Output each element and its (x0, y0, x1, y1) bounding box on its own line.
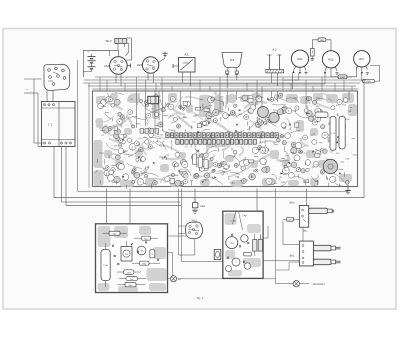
svg-text:SK3: SK3 (290, 201, 295, 204)
svg-text:A 2: A 2 (272, 48, 276, 52)
lamp LA (170, 276, 176, 282)
resistor R62 on sub-board (125, 283, 136, 287)
wire to jack SK3 (306, 189, 308, 206)
wire feeders into board (99, 77, 101, 95)
wire pair to tube socket (178, 189, 195, 256)
transistor TR2 on oscillator board (241, 235, 248, 242)
transistor TR5 on sub-board (137, 246, 146, 255)
transistor TR1 on oscillator board (226, 237, 238, 249)
wire battery top feed (83, 50, 109, 77)
wire mains leads to plug (24, 78, 42, 80)
ground near board bottom right (347, 185, 349, 191)
svg-text:TR5: TR5 (140, 250, 144, 253)
wire to sub-board mid (129, 189, 131, 224)
wire plug leads (46, 91, 48, 102)
earpiece H0 (222, 53, 242, 68)
capacitor C58 (310, 49, 314, 57)
svg-text:C6: C6 (151, 253, 153, 256)
capacitor top-cap stub at V2 (159, 58, 166, 63)
svg-text:LA: LA (178, 278, 181, 281)
wire down to oscillator board (256, 189, 258, 212)
resistor R56 (312, 40, 318, 49)
resistor R60 on sub-board (140, 261, 150, 265)
ground at R51 (305, 71, 308, 73)
wire SK2 loop (126, 38, 131, 60)
svg-text:SK 2: SK 2 (105, 39, 112, 43)
ground at R52 (336, 72, 339, 74)
wire board right loop (363, 80, 365, 198)
svg-text:H 0: H 0 (230, 58, 235, 62)
PCB copper traces and component pads (94, 90, 358, 189)
amplifier sub-board (96, 224, 168, 293)
IF transformer can M5 on PCB (148, 96, 159, 103)
capacitor C59 (361, 73, 364, 81)
tube V2 DF96 (142, 57, 158, 73)
main PCB board (93, 91, 358, 187)
connector pad row on PCB (140, 129, 278, 145)
wire supply bus (84, 79, 366, 81)
capacitor C14 on PCB (339, 116, 345, 148)
electrolytic capacitors on PCB (258, 107, 269, 118)
wire A1 bottom leads (182, 72, 184, 83)
plug in SK1 lower (313, 259, 331, 265)
svg-text:TR3: TR3 (242, 215, 247, 218)
svg-text:R57: R57 (359, 57, 365, 61)
resistor R58 (331, 72, 338, 77)
wire R52 feeds (160, 73, 325, 84)
potentiometer R57 (354, 51, 370, 67)
svg-text:DF9: DF9 (137, 63, 143, 67)
wire SK3 to SK1 (302, 227, 304, 241)
trimmers on oscillator board (232, 258, 240, 266)
coil cores on oscillator board (253, 240, 257, 252)
plug B11 in SK3 (309, 208, 328, 213)
choke DR3 (193, 203, 198, 208)
svg-text:DL9: DL9 (104, 64, 110, 68)
svg-text:R51: R51 (297, 57, 303, 61)
capacitor C13 on PCB (330, 116, 336, 150)
resistor on oscillator board (244, 252, 252, 256)
wire supply bus (83, 82, 360, 84)
electrolytic trio on PCB (193, 154, 197, 165)
wire R56 to R52 (326, 40, 331, 51)
microphone (293, 281, 299, 287)
capacitor C57 on sub-board (103, 232, 109, 234)
svg-text:SK1: SK1 (290, 254, 295, 257)
wire socket leads (178, 225, 186, 227)
electrolytic capacitor big on PCB (323, 159, 337, 173)
wire left loop down (78, 60, 349, 191)
svg-text:SK5: SK5 (288, 219, 291, 222)
wire sub-board exits (168, 235, 187, 237)
svg-text:B11: B11 (303, 230, 308, 233)
oscillator sub-board (223, 211, 263, 278)
potentiometer R52 (322, 51, 339, 68)
wire to sub-board left (105, 189, 107, 224)
wire H0 leads (226, 75, 228, 89)
wire left loop inner (82, 72, 84, 78)
wire V2 bottom leads (147, 73, 149, 80)
mains plug (44, 64, 70, 90)
svg-text:DR3: DR3 (200, 205, 205, 208)
svg-text:C 56: C 56 (103, 264, 108, 267)
wire supply bus (92, 88, 358, 90)
svg-text:+: + (87, 50, 89, 54)
transformer T1 (42, 102, 76, 147)
wire A2 leads (271, 73, 273, 83)
capacitor C64 on sub-board (150, 250, 155, 258)
wire SK1 left feeds (283, 221, 295, 245)
wire verticals crossing board top (136, 91, 138, 128)
svg-text:T 1: T 1 (48, 123, 53, 127)
svg-text:MICROSET: MICROSET (313, 283, 326, 286)
wire supply bus (88, 85, 356, 87)
transistor TR6 on sub-board (121, 247, 132, 262)
oscillator board arrows (231, 233, 233, 236)
wire lamp to microphone feed (177, 278, 276, 280)
capacitor C56 on sub-board (101, 250, 110, 281)
svg-text:TR6: TR6 (125, 253, 129, 256)
wire long vertical to microphone (276, 189, 294, 284)
switch SK5 contact (287, 218, 294, 222)
plug in SK1 upper (313, 245, 331, 251)
wire V1 bottom leads (115, 74, 117, 83)
resistor R61 on sub-board (142, 236, 151, 240)
transistor TR4 holder (214, 249, 221, 259)
svg-text:R52: R52 (328, 58, 334, 62)
ground at DR3 (194, 208, 196, 210)
wire supply bus (95, 76, 352, 78)
svg-text:fig. 1: fig. 1 (197, 296, 204, 300)
ground at R57 (366, 72, 369, 74)
wire oscillator top vee (233, 211, 237, 224)
wire R51 feeds (291, 73, 293, 89)
ground at C58 (311, 56, 313, 59)
svg-text:A 1: A 1 (184, 52, 188, 56)
wire transformer secondary runs (54, 147, 364, 198)
capacitor C62 on sub-board (126, 276, 138, 280)
tube V1 DL96 (110, 57, 128, 75)
wire down to DR3 (194, 189, 196, 204)
potentiometer R51 (291, 50, 308, 67)
capacitor C63 on sub-board (124, 270, 135, 275)
wire battery to tube V1 (92, 49, 119, 51)
resistor on PCB right (315, 112, 328, 117)
wire oscillator exits (263, 260, 299, 262)
sub-board small arrows (112, 244, 114, 247)
